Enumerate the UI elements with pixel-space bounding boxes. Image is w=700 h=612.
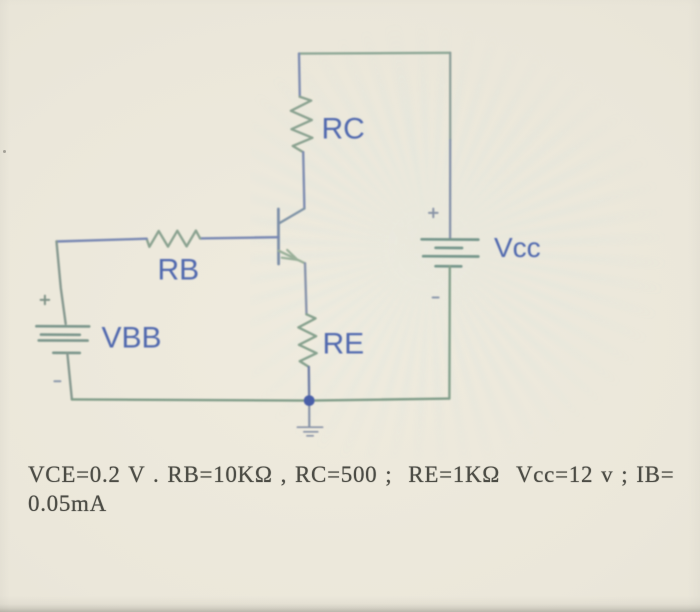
caption: given values text: [28, 460, 700, 519]
transistor Q1 collector slant: [279, 209, 305, 224]
wire bottom rail: [72, 399, 450, 401]
wire RC top stub: [298, 54, 301, 97]
VBB minus sign: [54, 380, 60, 382]
svg-text:RC: RC: [322, 112, 365, 145]
wire top rail (RC top to Vcc top corner): [299, 52, 450, 55]
svg-text:Vcc: Vcc: [494, 232, 541, 263]
svg-text:RB: RB: [158, 253, 200, 286]
Vcc minus sign: [433, 297, 439, 299]
VBB plus sign: [41, 296, 50, 305]
wire RE bottom to node: [308, 367, 311, 401]
battery VBB: [36, 326, 89, 353]
wire right vertical upper (top rail to Vcc +): [449, 53, 451, 140]
resistor RE: [298, 314, 316, 367]
wire base (transistor to RB): [200, 237, 278, 238]
resistor RB: [147, 231, 201, 247]
transistor Q1 base bar: [277, 209, 280, 264]
ground stub: [308, 401, 310, 427]
ground: [297, 427, 322, 436]
Vcc plus sign: [429, 209, 438, 218]
svg-text:VBB: VBB: [102, 322, 162, 355]
wire collector (RC bottom to transistor): [303, 152, 304, 208]
wire VBB bottom stub: [67, 353, 72, 400]
transistor Q1 emitter slant: [279, 251, 305, 263]
wire left vertical (corner to VBB +): [57, 242, 66, 324]
wire right vertical lower (Vcc - to bottom rail): [448, 266, 451, 398]
wire emitter vertical (to RE top): [305, 263, 307, 314]
wire base left (RB to corner): [57, 239, 147, 242]
node junction dot: [304, 395, 315, 406]
transistor Q1 emitter arrow: [282, 250, 298, 260]
wire right vertical mid (to Vcc +): [449, 140, 451, 239]
resistor RC: [291, 97, 313, 153]
battery Vcc: [422, 239, 479, 266]
svg-text:RE: RE: [323, 328, 365, 361]
